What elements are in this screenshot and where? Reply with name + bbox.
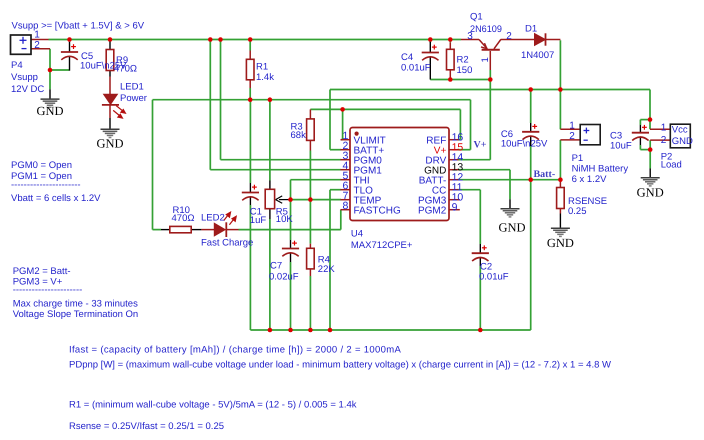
U4 pin 4 stub — [341, 169, 351, 171]
capacitor C2 symbol — [472, 245, 489, 261]
svg-text:D1: D1 — [525, 24, 537, 35]
junction rail-PGM1 — [208, 37, 213, 42]
U4 pin 11 stub — [449, 189, 459, 191]
U4 pin 15 stub — [449, 149, 459, 151]
wire C3 loop top lead — [639, 120, 641, 125]
svg-text:10uF\n25V: 10uF\n25V — [501, 139, 548, 150]
P1 minus mark — [584, 139, 588, 141]
wire R4 lower link — [309, 276, 311, 330]
resistor R3 body — [307, 119, 315, 140]
junction rail C7 — [288, 328, 293, 333]
svg-text:R1: R1 — [256, 62, 268, 73]
LED1 cathode lead — [109, 105, 111, 118]
svg-text:Load: Load — [661, 160, 682, 171]
P4 pin 2 stub — [31, 48, 50, 50]
R9 stub top — [109, 42, 111, 50]
wire R2 top — [449, 40, 451, 43]
transistor Q1 (PNP 2N6109) — [461, 40, 501, 71]
svg-text:68k: 68k — [291, 130, 307, 141]
svg-text:Vbatt = 6 cells x 1.2V: Vbatt = 6 cells x 1.2V — [11, 193, 101, 204]
wire GND13 run — [458, 169, 511, 171]
R5 wiper arrow — [276, 196, 283, 203]
wire R9 top stub upper — [109, 40, 111, 43]
svg-text:0.02uF: 0.02uF — [269, 272, 299, 283]
wire main +12V rail — [49, 39, 462, 41]
lead R5 bottom — [269, 209, 271, 219]
svg-text:R2: R2 — [457, 55, 469, 66]
P1 pin 1 stub — [560, 128, 580, 130]
R3 stub top — [309, 109, 311, 119]
lead C7 bottom — [290, 253, 292, 262]
wire D1 cathode drop — [559, 40, 561, 89]
wire TLO long drop — [329, 190, 331, 330]
wire GND13 drop — [509, 170, 511, 200]
wire DRV drop — [489, 80, 491, 160]
wire Q1 base lower — [489, 70, 491, 80]
lead R5 top — [269, 181, 271, 190]
svg-text:1N4007: 1N4007 — [521, 50, 554, 61]
wire V+ right drop to pin15 — [470, 100, 472, 150]
wire C2 drop lower — [479, 266, 481, 330]
R4 stub top — [309, 244, 311, 249]
ground GND under P4 — [36, 99, 63, 118]
resistor RSENSE body — [557, 188, 565, 209]
svg-text:10K: 10K — [276, 214, 294, 225]
wire PGM1 drop — [209, 40, 211, 170]
wire LED2 to FASTCHG run — [239, 229, 341, 231]
wire CC run — [458, 189, 481, 191]
svg-text:0.01uF: 0.01uF — [401, 63, 431, 74]
wire C1 drop from V+ — [249, 100, 251, 183]
junction rail-R1 — [248, 37, 253, 42]
junction rail-R2 — [448, 37, 453, 42]
LED2 cathode bar — [225, 222, 227, 237]
wire R1 top — [249, 40, 251, 51]
junction batt- C6 — [528, 177, 533, 182]
junction rail TLO — [328, 328, 333, 333]
resistor R10 body — [170, 226, 191, 232]
svg-text:3: 3 — [467, 31, 473, 42]
junction Q1 base node — [488, 77, 493, 82]
svg-text:Max charge time - 33 minutes: Max charge time - 33 minutes — [13, 298, 138, 309]
connector P2 box — [670, 124, 690, 148]
svg-text:P4: P4 — [11, 60, 23, 71]
svg-text:9: 9 — [452, 201, 458, 213]
wire TLO run — [330, 189, 341, 191]
junction temp R3/R4 — [308, 197, 313, 202]
RSENSE stub top — [559, 180, 561, 188]
svg-text:2: 2 — [34, 40, 40, 51]
connector P4 box — [11, 35, 32, 54]
capacitor C1 symbol — [242, 185, 259, 201]
U4 pin 13 stub — [449, 169, 459, 171]
junction P4 gnd node — [48, 68, 53, 73]
wire VLIMIT drop — [342, 109, 344, 139]
wire P2 pin2 link — [649, 140, 651, 150]
junction REF/VLIMIT — [340, 107, 345, 112]
lead C6 top — [530, 123, 532, 132]
LED1 emission arrows — [113, 106, 125, 118]
svg-text:0.25: 0.25 — [568, 206, 587, 217]
U4 pin 2 stub — [341, 149, 351, 151]
resistor R5 (pot) body — [265, 189, 274, 208]
svg-text:Vsupp: Vsupp — [11, 72, 38, 83]
svg-text:NiMH Battery: NiMH Battery — [572, 164, 629, 175]
junction V+ R1/C1 — [248, 97, 253, 102]
P2 pin 2 stub — [650, 139, 670, 141]
svg-text:LED2: LED2 — [201, 213, 225, 224]
LED2 cathode lead — [226, 229, 238, 231]
svg-text:470Ω: 470Ω — [114, 64, 137, 75]
lead C6 bottom — [530, 136, 532, 146]
lead C5 bottom — [69, 57, 71, 71]
svg-text:Q1: Q1 — [470, 12, 483, 23]
wire V+ to R10 — [153, 229, 162, 231]
svg-text:2: 2 — [569, 131, 575, 142]
junction V+ R5 — [268, 97, 273, 102]
wire P4 gnd spur — [50, 69, 69, 71]
capacitor C7 symbol — [282, 241, 299, 257]
junction R2 bottom — [448, 77, 453, 82]
wire P2 feed drop — [649, 90, 651, 130]
svg-text:2N6109: 2N6109 — [470, 24, 502, 35]
LED1 cathode bar — [102, 104, 119, 106]
wire REF drop to pin16 — [459, 109, 461, 139]
Q1 collector to D1 wire — [501, 39, 535, 41]
svg-text:Voltage Slope Termination On: Voltage Slope Termination On — [13, 309, 139, 320]
svg-text:GND: GND — [498, 221, 525, 235]
U4 pin 16 stub — [449, 139, 459, 141]
junction C3 top — [648, 117, 653, 122]
lead C3 bottom — [639, 137, 641, 145]
wire V+ rail — [153, 99, 471, 101]
resistor R1 body — [246, 59, 254, 80]
junction rail-C5 — [67, 37, 72, 42]
lead P4 gnd — [49, 89, 51, 99]
wire P1 pin1 drop — [559, 90, 561, 130]
wire P1 pin2 drop — [559, 140, 561, 180]
wire THI drop — [290, 180, 292, 200]
svg-text:GND: GND — [672, 136, 693, 147]
R4 stub bottom — [309, 269, 311, 276]
junction batt+ D1/P1 — [558, 87, 563, 92]
P1 plus mark — [584, 128, 590, 134]
wire P2 gnd drop — [649, 150, 651, 169]
ground GND under P2 — [637, 178, 664, 200]
wire THI run — [291, 179, 342, 181]
capacitor C6 symbol — [522, 124, 539, 140]
svg-text:C7: C7 — [270, 261, 282, 272]
U4 pin 6 stub — [341, 189, 351, 191]
lead LED1 gnd — [109, 118, 111, 129]
LED D-LED2 triangle — [214, 223, 225, 236]
lead C4 bottom — [429, 57, 431, 80]
wire PGM1 run — [210, 169, 341, 171]
wire C4/R2 bottom run — [430, 79, 490, 81]
svg-text:Batt-: Batt- — [534, 169, 556, 180]
ground GND under LED1 — [96, 129, 123, 150]
svg-text:U4: U4 — [351, 228, 363, 239]
svg-text:LED1: LED1 — [120, 82, 144, 93]
svg-text:GND: GND — [36, 104, 63, 118]
svg-text:GND: GND — [96, 137, 123, 151]
svg-text:Vsupp >= [Vbatt + 1.5V] & > 6V: Vsupp >= [Vbatt + 1.5V] & > 6V — [12, 21, 145, 32]
U4 pin 12 stub — [449, 179, 459, 181]
R2 stub bottom — [449, 70, 451, 80]
wire REF run — [310, 108, 460, 110]
svg-text:8: 8 — [342, 200, 348, 212]
capacitor C3 symbol — [632, 125, 649, 141]
svg-text:1: 1 — [661, 123, 667, 134]
wire pin2 connect — [330, 149, 341, 151]
lead R10 left — [161, 229, 170, 231]
resistor R2 body — [447, 49, 455, 70]
svg-text:2: 2 — [661, 135, 667, 146]
U4 pin 5 stub — [341, 179, 351, 181]
RSENSE stub bottom — [559, 209, 561, 214]
wire FASTCHG riser — [340, 210, 342, 230]
LED2 anode lead — [201, 229, 214, 231]
wire C4 top — [429, 40, 431, 43]
wire PGM0 drop — [220, 40, 222, 160]
junction batt+ C6 — [528, 87, 533, 92]
wire C3 loop top — [640, 119, 650, 121]
lead C2 bottom — [479, 258, 481, 266]
wire C7 upper drop — [290, 200, 292, 240]
resistor R4 body — [307, 248, 315, 269]
wire C7 lower drop — [290, 262, 292, 330]
resistor R9 body — [106, 50, 114, 71]
U4 pin 8 stub — [341, 209, 351, 211]
svg-text:1.4k: 1.4k — [256, 72, 274, 83]
svg-text:470Ω: 470Ω — [172, 213, 195, 224]
U4 pin 7 stub — [341, 199, 351, 201]
R2 stub top — [449, 42, 451, 49]
svg-text:PGM2 = Batt-: PGM2 = Batt- — [13, 266, 71, 277]
lead C2 top — [479, 244, 481, 253]
wire R5 drop from V+ — [269, 100, 271, 181]
junction batt- P1/RSENSE — [558, 177, 563, 182]
P2 pin 1 stub — [650, 128, 670, 130]
wire pin15 connect — [458, 149, 471, 151]
lead GND13 — [509, 199, 511, 208]
wire VLIMIT connect — [341, 139, 343, 141]
lead RSENSE gnd — [559, 214, 561, 229]
svg-text:MAX712CPE+: MAX712CPE+ — [351, 240, 413, 251]
ground GND pin13 — [498, 209, 525, 235]
svg-text:12V DC: 12V DC — [11, 84, 44, 95]
svg-text:V+: V+ — [474, 140, 487, 151]
D1 cathode lead — [546, 39, 561, 41]
wire BATT- long drop — [530, 180, 532, 330]
svg-text:1uF: 1uF — [250, 215, 267, 226]
LED D-LED1 triangle — [104, 94, 118, 104]
wire C6 bottom lead lower — [530, 146, 532, 180]
junction rail-C4 — [428, 37, 433, 42]
junction rail R4 — [308, 328, 313, 333]
junction rail R5 — [268, 328, 273, 333]
svg-text:C4: C4 — [401, 52, 413, 63]
wire TEMP run — [291, 199, 342, 201]
svg-text:10uF: 10uF — [610, 141, 632, 152]
svg-text:Rsense = 0.25V/Ifast = 0.25/1: Rsense = 0.25V/Ifast = 0.25/1 = 0.25 — [69, 421, 224, 432]
svg-text:6 x 1.2V: 6 x 1.2V — [572, 174, 608, 185]
svg-text:0.01uF: 0.01uF — [479, 272, 509, 283]
P4 pin 1 stub — [31, 39, 49, 41]
U4 pin 10 stub — [449, 199, 460, 201]
lead C1 bottom — [249, 197, 251, 205]
wire V+ left drop — [152, 100, 154, 230]
svg-text:PDpnp [W] = (maximum wall-cube: PDpnp [W] = (maximum wall-cube voltage u… — [69, 360, 611, 371]
R3 stub bottom — [309, 140, 311, 150]
svg-text:Fast Charge: Fast Charge — [201, 238, 253, 249]
junction rail-PGM0 — [218, 37, 223, 42]
LED1 anode lead upper — [109, 77, 111, 95]
wire C1 lower drop — [249, 205, 251, 330]
wire pin16 connect — [458, 139, 461, 141]
R1 stub bottom — [249, 80, 251, 88]
wire DRV connect — [458, 159, 491, 161]
lead C4 top — [429, 42, 431, 53]
lead C7 top — [290, 240, 292, 249]
svg-text:FASTCHG: FASTCHG — [354, 205, 401, 216]
lead P2 gnd — [649, 169, 651, 178]
wire P4 pin2 drop — [49, 49, 51, 90]
svg-text:R1 = (minimum wall-cube voltag: R1 = (minimum wall-cube voltage - 5V)/5m… — [69, 400, 357, 411]
svg-text:150: 150 — [457, 65, 473, 76]
U4 pin 9 stub — [449, 209, 460, 211]
wire bottom rail — [250, 329, 530, 331]
wire C3 loop bottom — [640, 149, 650, 151]
diode D1 — [535, 33, 546, 45]
capacitor C5 symbol — [61, 44, 78, 60]
ground GND under RSENSE — [547, 228, 574, 250]
svg-text:Ifast = (capacity of battery [: Ifast = (capacity of battery [mAh]) / (c… — [69, 345, 401, 356]
lead R10 right — [191, 229, 201, 231]
U4 pin1 marker dot — [355, 132, 359, 136]
wire BATT+ rail — [330, 89, 650, 91]
wire BATT+ drop to pin2 — [329, 90, 331, 150]
svg-text:1: 1 — [569, 121, 575, 132]
wire R3 lower link — [309, 151, 311, 200]
U4 pin 1 stub — [341, 139, 351, 141]
wire BATT- run — [458, 179, 561, 181]
svg-text:GND: GND — [547, 236, 574, 250]
P1 pin 2 stub — [560, 139, 580, 141]
lead C5 top — [69, 42, 71, 52]
svg-text:2: 2 — [506, 31, 512, 42]
svg-text:P1: P1 — [572, 153, 584, 164]
lead C1 top — [249, 183, 251, 193]
wire R4 upper link — [309, 200, 311, 244]
wire C6 top lead upper — [530, 90, 532, 124]
wire C2 drop upper — [479, 190, 481, 244]
R1 stub top — [249, 51, 251, 60]
lead C3 top — [639, 125, 641, 133]
P4 minus mark — [22, 48, 27, 50]
junction temp wiper — [288, 197, 293, 202]
junction C3 bottom — [648, 147, 653, 152]
svg-text:----------------------: ---------------------- — [13, 285, 83, 296]
svg-text:Power: Power — [120, 93, 147, 104]
junction rail-R9 — [108, 37, 113, 42]
lead R5 wiper — [279, 199, 291, 201]
svg-text:PGM2: PGM2 — [418, 205, 447, 216]
svg-text:Vcc: Vcc — [672, 124, 688, 135]
P4 plus mark — [20, 37, 27, 44]
R9 stub bottom — [109, 71, 111, 77]
wire PGM0 run — [221, 159, 342, 161]
svg-text:PGM0 = Open: PGM0 = Open — [11, 160, 72, 171]
connector P1 box — [580, 125, 600, 145]
LED2 emission arrows — [224, 212, 237, 225]
wire C3 loop bottom lead — [639, 145, 641, 150]
wire R5 lower drop — [269, 219, 271, 330]
wire R1 bottom — [249, 88, 251, 100]
op-amp/IC U4 MAX712CPE+ body — [350, 128, 449, 221]
svg-text:----------------------: ---------------------- — [11, 180, 81, 191]
svg-text:1: 1 — [480, 57, 491, 62]
capacitor C4 symbol — [422, 45, 439, 61]
svg-text:22K: 22K — [318, 264, 336, 275]
svg-text:GND: GND — [637, 186, 664, 200]
U4 pin 14 stub — [449, 159, 459, 161]
junction rail C2 — [478, 328, 483, 333]
U4 pin 3 stub — [341, 159, 351, 161]
